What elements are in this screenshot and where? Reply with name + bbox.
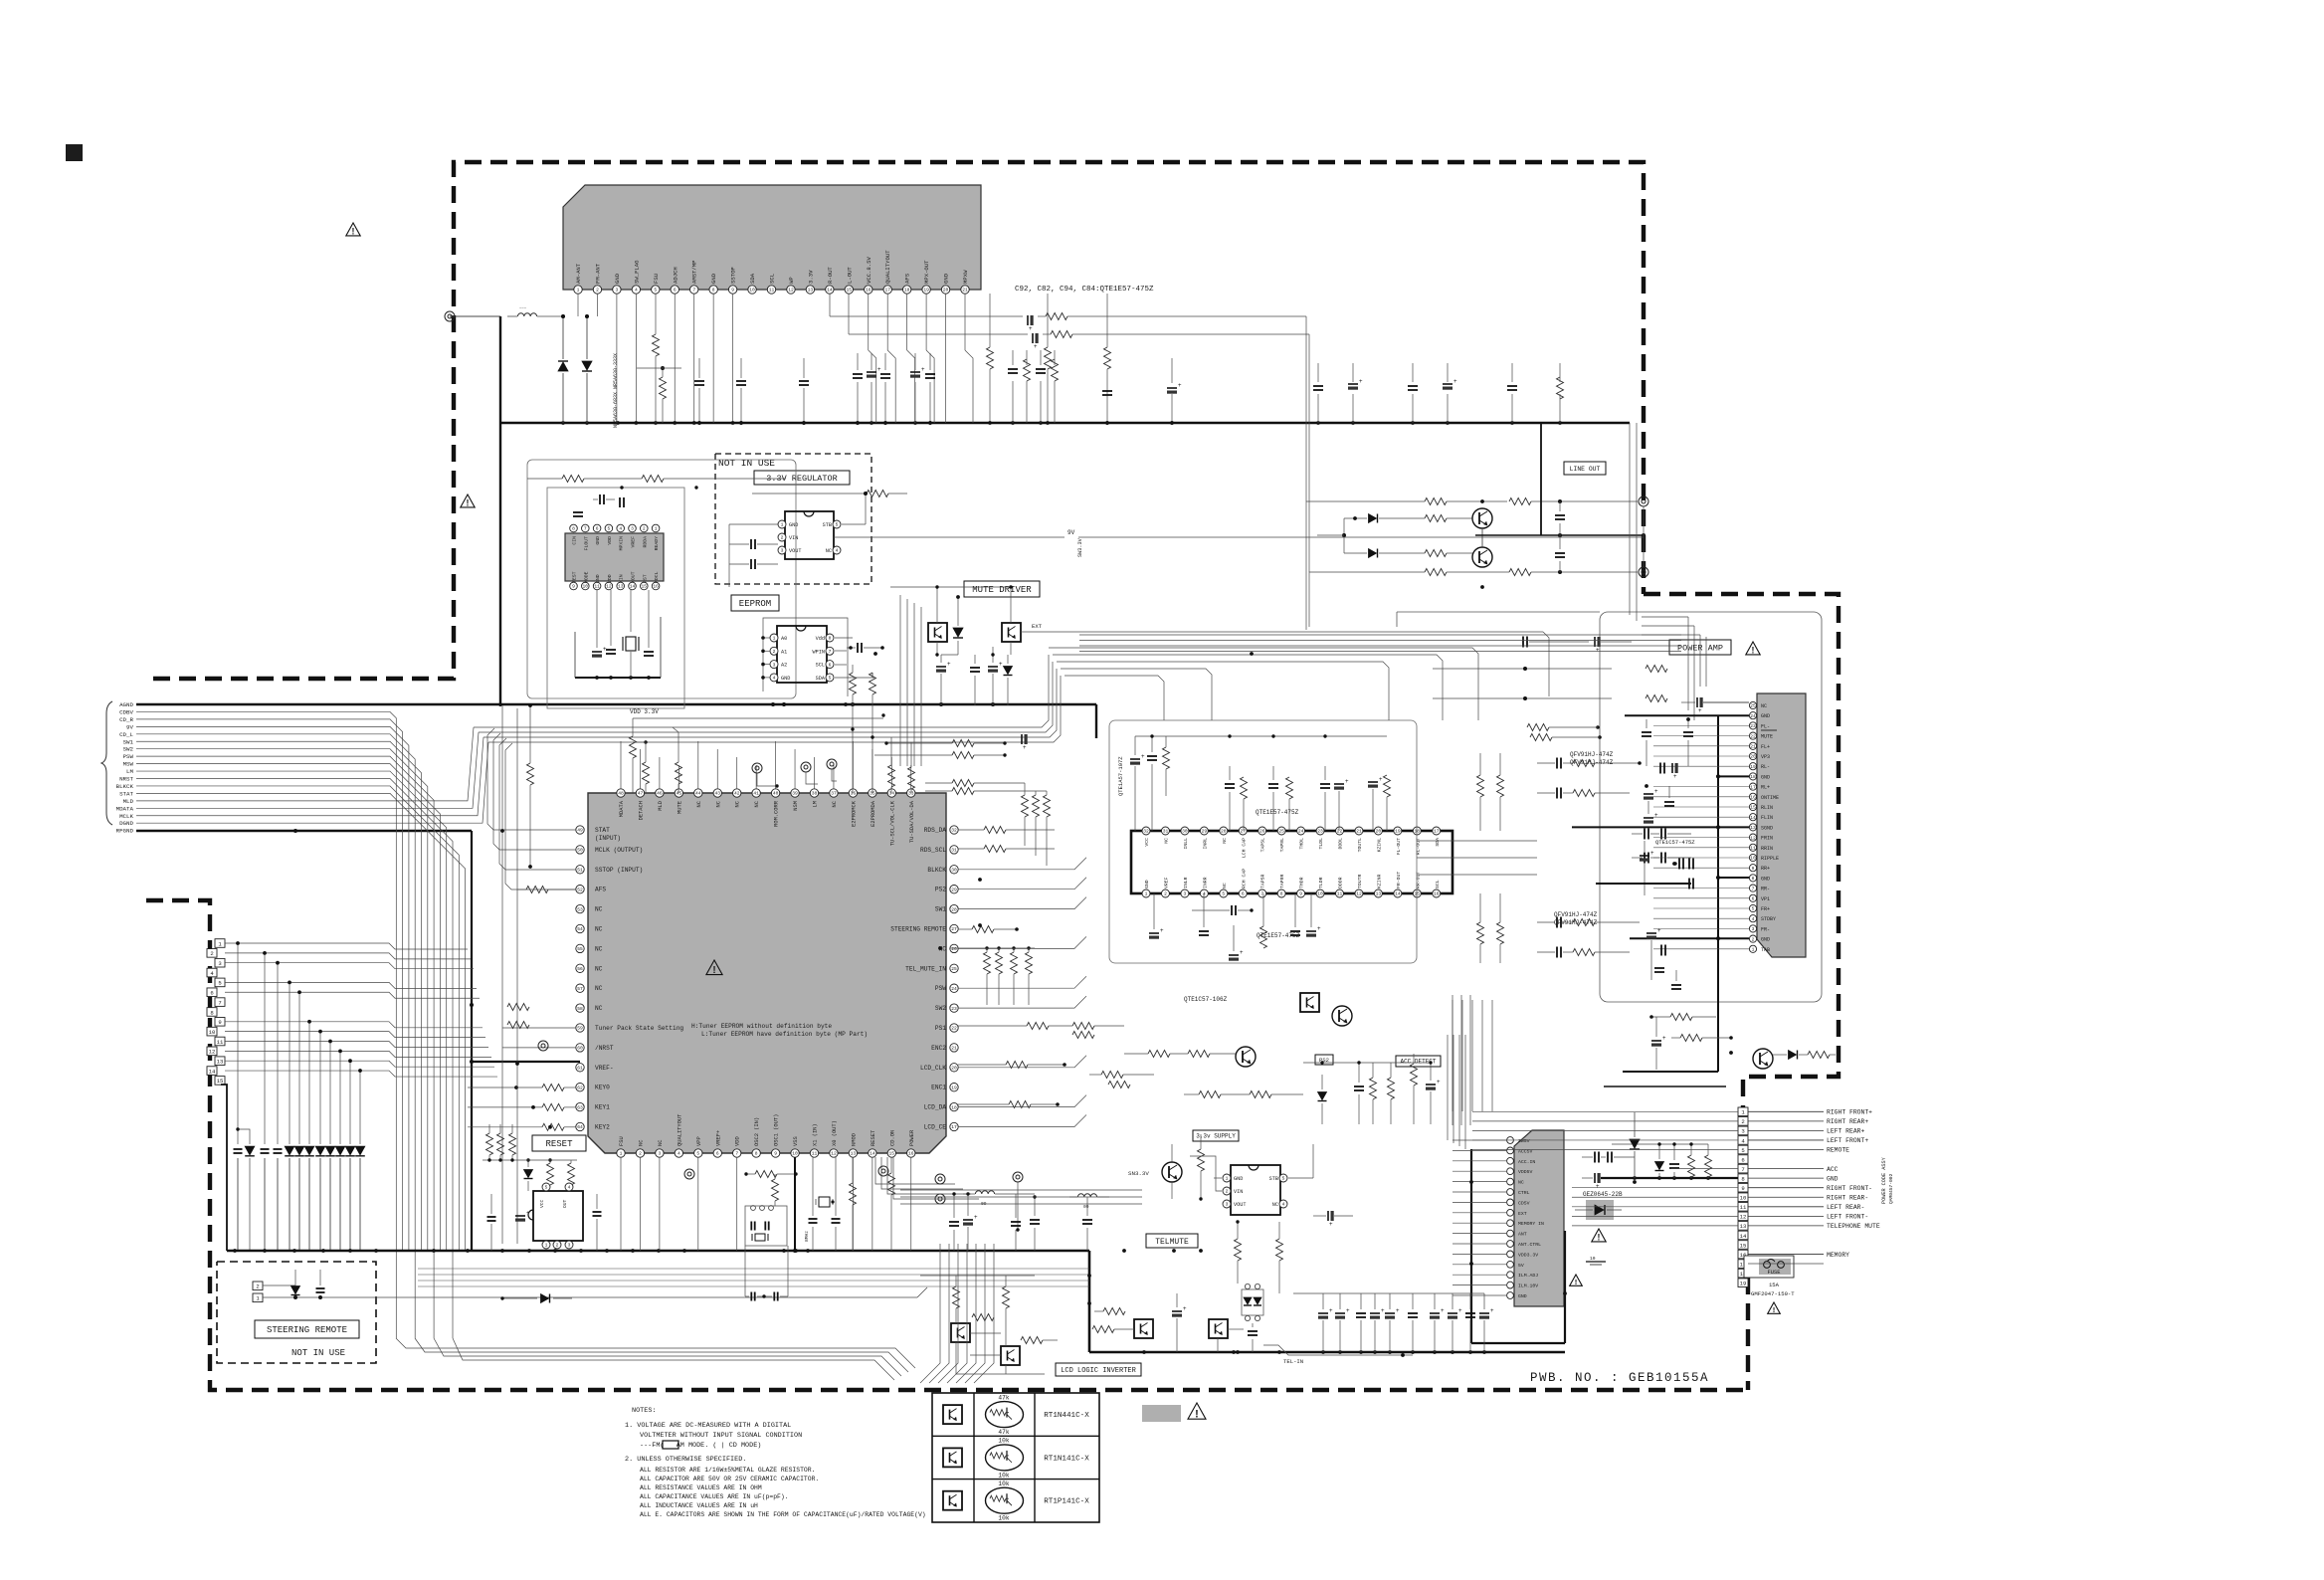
antenna coil [507, 307, 589, 318]
svg-text:VDD3.3V: VDD3.3V [1518, 1252, 1538, 1258]
svg-text:MDATA: MDATA [116, 805, 134, 812]
memory wire [1748, 1263, 1824, 1265]
steering remote label box [255, 1320, 359, 1338]
acc res right [1411, 1054, 1418, 1124]
dashed border bottom section [146, 900, 1748, 1390]
osc resistor [744, 1171, 797, 1178]
svg-text:THDR: THDR [1299, 877, 1305, 889]
svg-text:3: 3 [1741, 1128, 1744, 1135]
opto legend table [932, 1393, 1099, 1522]
svg-text:VREF+: VREF+ [715, 1130, 721, 1146]
svg-text:9: 9 [218, 1019, 221, 1026]
svg-text:~~~: ~~~ [519, 307, 527, 311]
svg-text:15: 15 [1415, 891, 1421, 897]
page corner marker [66, 144, 83, 161]
svg-text:QTE1E57-475Z: QTE1E57-475Z [1256, 809, 1299, 816]
svg-text:MLD: MLD [123, 798, 134, 805]
svg-text:+: + [1345, 779, 1349, 785]
svg-text:23: 23 [1750, 723, 1756, 729]
svg-text:17: 17 [884, 288, 890, 294]
svg-text:VDD5V: VDD5V [1518, 1169, 1533, 1175]
svg-text:RIGHT FRONT-: RIGHT FRONT- [1827, 1185, 1872, 1192]
svg-text:1. VOLTAGE ARE DC-MEASURED WIT: 1. VOLTAGE ARE DC-MEASURED WITH A DIGITA… [625, 1422, 791, 1430]
cpu testpoints [538, 759, 945, 1204]
svg-text:9: 9 [1299, 891, 1302, 897]
cpu bottom wires [621, 1157, 911, 1251]
cd bus risers [575, 590, 661, 678]
supply ic stubs [1452, 1140, 1506, 1295]
svg-text:13: 13 [1740, 1223, 1747, 1230]
svg-text:5: 5 [654, 288, 657, 294]
supply caps 2 [1669, 1144, 1712, 1178]
svg-text:+: + [1029, 326, 1033, 332]
svg-text:GND: GND [595, 536, 601, 545]
mb caps 2 [1030, 1195, 1092, 1251]
pa thick feeds [1596, 883, 1691, 885]
svg-text:PS1: PS1 [935, 1025, 946, 1032]
svg-text:24: 24 [1750, 713, 1756, 719]
svg-text:RCH CAP: RCH CAP [1241, 869, 1247, 889]
svg-text:/NRST: /NRST [595, 1045, 614, 1052]
lout filter [849, 294, 1309, 350]
svg-text:5V: 5V [1518, 1263, 1524, 1269]
cpu right wires [958, 858, 1086, 1127]
regulator caps [729, 524, 778, 587]
svg-text:16: 16 [866, 288, 871, 294]
front panel connector CN201 [207, 939, 225, 1085]
svg-text:10k: 10k [998, 1515, 1009, 1522]
osc resistor 2 [772, 1174, 779, 1206]
svg-text:ONTIME: ONTIME [1761, 795, 1779, 801]
gez diode pack [1575, 1191, 1623, 1220]
audio out wires right [1417, 841, 1537, 875]
reset rail [483, 1158, 577, 1161]
svg-text:KZINL: KZINL [1376, 838, 1382, 853]
svg-text:NC: NC [735, 801, 741, 807]
svg-text:SW5V: SW5V [1518, 1138, 1530, 1144]
svg-text:QTE1C57-106Z: QTE1C57-106Z [1184, 996, 1228, 1003]
power amp label box [1669, 640, 1731, 655]
svg-text:!: ! [712, 965, 715, 976]
svg-text:6: 6 [1752, 896, 1755, 902]
svg-text:LCD_DA: LCD_DA [924, 1104, 947, 1111]
audio coupling row 2 [1537, 788, 1630, 799]
svg-text:4: 4 [678, 1151, 680, 1157]
svg-text:26: 26 [1259, 829, 1265, 835]
svg-text:RT1N441C-X: RT1N441C-X [1044, 1412, 1089, 1420]
svg-text:7: 7 [218, 999, 221, 1006]
acc diode [1318, 1075, 1327, 1124]
svg-text:+: + [1317, 926, 1321, 932]
svg-text:SW1: SW1 [935, 906, 946, 913]
reset diode [524, 1158, 533, 1191]
pa ecap bottom [1651, 1017, 1666, 1070]
9v wire [834, 536, 1644, 538]
svg-text:17: 17 [1750, 784, 1756, 790]
svg-text:1: 1 [577, 288, 580, 294]
svg-text:NC: NC [1518, 1180, 1524, 1186]
svg-text:23: 23 [1317, 829, 1323, 835]
ps2 label box [1315, 1055, 1333, 1065]
svg-text:61: 61 [577, 1066, 583, 1072]
svg-text:2: 2 [773, 649, 776, 655]
svg-text:MSW: MSW [123, 761, 134, 768]
dashed border power amp section [1644, 594, 1839, 1390]
bottom rail upper [1293, 1292, 1484, 1294]
pa res 2 [1671, 1035, 1733, 1042]
svg-text:RR+: RR+ [1761, 866, 1770, 872]
svg-text:10: 10 [209, 1029, 216, 1036]
svg-text:AFS: AFS [904, 273, 911, 284]
svg-text:3: 3 [781, 548, 784, 554]
svg-text:12: 12 [788, 288, 794, 294]
svg-text:+: + [1437, 1080, 1441, 1086]
svg-text:CTRL: CTRL [1518, 1190, 1530, 1196]
tel dual diode [1242, 1284, 1263, 1320]
svg-text:AGND: AGND [119, 701, 133, 708]
svg-text:49: 49 [577, 828, 583, 834]
svg-text:FSU: FSU [653, 274, 660, 284]
svg-text:14: 14 [827, 288, 833, 294]
line out left rail [1306, 501, 1346, 630]
sda scl wp pullups [987, 294, 1111, 423]
svg-text:39: 39 [792, 791, 798, 797]
svg-text:RL-OUT: RL-OUT [1415, 838, 1421, 855]
svg-text:60: 60 [577, 1046, 583, 1052]
cd top resistors [527, 476, 786, 490]
svg-text:28: 28 [1221, 829, 1227, 835]
line out diode 1 [1344, 514, 1425, 523]
cpu tuner setting res [1089, 1072, 1154, 1088]
RFGND bus wire [136, 829, 474, 1250]
reset label box [532, 1135, 586, 1151]
svg-text:GND: GND [1234, 1176, 1243, 1182]
fan to lcd horizontals [396, 1338, 915, 1380]
svg-text:TELEPHONE MUTE: TELEPHONE MUTE [1827, 1223, 1880, 1230]
svg-text:MEMORY IN: MEMORY IN [1518, 1221, 1544, 1227]
svg-text:MDATA: MDATA [619, 800, 625, 817]
svg-text:4: 4 [1203, 891, 1206, 897]
svg-text:TEL_MUTE_IN: TEL_MUTE_IN [905, 965, 946, 972]
svg-text:32: 32 [951, 828, 957, 834]
svg-text:1: 1 [773, 636, 776, 642]
svg-text:MLD: MLD [658, 801, 664, 811]
svg-text:8: 8 [829, 636, 832, 642]
notes text block [625, 1407, 926, 1518]
svg-text:27: 27 [951, 926, 957, 932]
svg-text:NMOD: NMOD [851, 1133, 857, 1146]
supply ecap [1582, 1173, 1601, 1190]
svg-text:!: ! [1195, 1409, 1199, 1421]
svg-text:LM: LM [813, 801, 819, 807]
svg-text:!: ! [1773, 1305, 1776, 1314]
power connector assy label [1881, 1156, 1894, 1204]
svg-text:NC: NC [1761, 703, 1767, 709]
svg-text:!: ! [467, 498, 470, 508]
svg-text:SW2: SW2 [123, 746, 134, 753]
line out transistor 1 [1472, 508, 1492, 535]
svg-text:9V: 9V [126, 723, 133, 730]
svg-text:VIN: VIN [789, 535, 798, 541]
svg-text:A0: A0 [781, 636, 787, 642]
svg-text:22: 22 [1337, 829, 1343, 835]
tuner filter part number [613, 353, 619, 428]
svg-text:LCD LOGIC INVERTER: LCD LOGIC INVERTER [1061, 1367, 1136, 1375]
reset IC IC203 [528, 1183, 583, 1249]
svg-text:FSU: FSU [619, 1136, 625, 1146]
ground bus bottom [227, 1249, 1089, 1253]
svg-text:L-OUT: L-OUT [846, 267, 853, 284]
svg-text:10: 10 [1317, 891, 1323, 897]
3.3v supply label box [1193, 1130, 1239, 1141]
cpu tu resistors [888, 737, 915, 793]
power connector CN801 [1738, 1107, 1880, 1287]
pa lower caps [1646, 928, 1681, 989]
svg-text:15: 15 [642, 584, 648, 590]
svg-text:ALL E. CAPACITORS ARE SHOWN IN: ALL E. CAPACITORS ARE SHOWN IN THE FORM … [640, 1511, 926, 1518]
svg-text:4: 4 [619, 526, 622, 532]
gray legend swatch [1142, 1405, 1181, 1422]
svg-text:+: + [1240, 950, 1244, 956]
svg-text:TOUTR: TOUTR [1357, 874, 1363, 889]
pa bottom resistor [1649, 1014, 1716, 1021]
audio mid caps [1632, 829, 1691, 864]
svg-text:15: 15 [847, 288, 853, 294]
cpu e2prom resistors [850, 665, 876, 793]
AGND bus wire [136, 702, 1096, 738]
lcd logic inverter label box [1056, 1363, 1141, 1376]
svg-text:25: 25 [1750, 703, 1756, 709]
svg-text:VSS: VSS [793, 1136, 799, 1146]
svg-text:24: 24 [1298, 829, 1304, 835]
svg-text:VP3: VP3 [1761, 754, 1770, 760]
pwb number [1530, 1371, 1709, 1385]
svg-text:GND: GND [614, 273, 621, 284]
svg-text:VDD: VDD [607, 536, 613, 545]
cpu right res trio [1022, 783, 1051, 866]
tuner part number note [1015, 286, 1154, 294]
svg-text:10: 10 [1750, 856, 1756, 862]
cd area inner box [547, 488, 684, 708]
svg-text:9V: 9V [1067, 529, 1075, 536]
svg-text:20: 20 [951, 1066, 957, 1072]
telmute resistors [1235, 1220, 1283, 1293]
svg-text:29: 29 [951, 887, 957, 892]
cpu ps1 res [958, 1023, 1124, 1039]
svg-text:21: 21 [962, 288, 968, 294]
svg-text:TAP8R: TAP8R [1279, 874, 1285, 889]
svg-text:STEERING REMOTE: STEERING REMOTE [267, 1325, 347, 1335]
svg-text:19: 19 [1750, 764, 1756, 770]
svg-text:40: 40 [773, 791, 779, 797]
svg-text:12: 12 [606, 584, 612, 590]
svg-text:47k: 47k [998, 1394, 1009, 1401]
svg-text:FLIN: FLIN [1761, 815, 1773, 821]
svg-text:CD_L: CD_L [119, 731, 133, 738]
svg-text:2: 2 [1226, 1189, 1229, 1195]
svg-text:37: 37 [831, 791, 837, 797]
svg-text:+: + [1673, 774, 1677, 780]
svg-text:7: 7 [829, 649, 832, 655]
svg-text:QTE1C57-475Z: QTE1C57-475Z [1655, 839, 1695, 846]
svg-text:GND: GND [789, 522, 798, 528]
svg-text:2: 2 [256, 1284, 259, 1290]
CD decoder IC301 [461, 494, 664, 590]
line out cap 2 [1555, 535, 1565, 572]
tuner mid caps [853, 353, 935, 423]
svg-text:+: + [1329, 1308, 1333, 1314]
supply warn [1592, 1229, 1606, 1243]
svg-text:TELMUTE: TELMUTE [1155, 1238, 1189, 1247]
acc transistor 2 [1236, 1047, 1256, 1067]
svg-text:DDDR: DDDR [1338, 877, 1344, 889]
svg-text:WPIN: WPIN [813, 649, 825, 655]
audio vcc cap [1192, 905, 1254, 961]
mid bottom long bundle [418, 1269, 1089, 1286]
svg-text:13: 13 [618, 584, 624, 590]
svg-text:+: + [1490, 1308, 1494, 1314]
steering remote not in use [291, 1348, 345, 1358]
supply vert wires [1452, 1000, 1492, 1111]
svg-text:ADJCH: ADJCH [672, 267, 678, 284]
stat wire wrap [487, 728, 576, 889]
rout decouple caps [1008, 350, 1059, 423]
svg-text:ACC.IN: ACC.IN [1518, 1159, 1535, 1165]
svg-text:VCC: VCC [539, 1199, 545, 1208]
svg-text:12: 12 [831, 1151, 837, 1157]
svg-text:TU-SCL/VOL-CLK: TU-SCL/VOL-CLK [889, 800, 895, 846]
svg-text:21: 21 [951, 1046, 957, 1052]
svg-text:15: 15 [889, 1151, 895, 1157]
svg-text:+: + [1698, 708, 1702, 714]
svg-text:GND: GND [1761, 713, 1770, 719]
svg-text:3: 3 [1184, 891, 1187, 897]
svg-text:STEERING REMOTE: STEERING REMOTE [890, 926, 946, 933]
cpu pullup resistors [527, 703, 682, 869]
svg-text:13: 13 [1750, 825, 1756, 831]
pa caps 2 [1660, 763, 1678, 807]
svg-text:+: + [1654, 789, 1658, 795]
9v label [1067, 529, 1075, 536]
fsu resistor 2 [637, 366, 681, 423]
svg-text:XOUT: XOUT [631, 571, 637, 583]
lcd inv opto 1 [951, 1276, 970, 1342]
svg-text:NC: NC [595, 926, 603, 933]
svg-text:TLDR: TLDR [1318, 877, 1324, 889]
cd lower cluster [592, 632, 654, 658]
tel opto 2 [1209, 1319, 1244, 1352]
cpu fan lower right [875, 1157, 979, 1199]
svg-text:8: 8 [755, 1151, 758, 1157]
svg-text:KEY2: KEY2 [595, 1124, 610, 1131]
svg-text:NC: NC [1222, 883, 1228, 889]
microcontroller IC201 [576, 789, 958, 1157]
line out cap 1 [1555, 501, 1565, 535]
cpu right rds resistors [958, 827, 1055, 853]
svg-text:RIPPLE: RIPPLE [1761, 856, 1779, 862]
svg-text:PS2: PS2 [935, 887, 946, 893]
svg-text:+: + [1657, 928, 1661, 934]
svg-text:11: 11 [769, 288, 775, 294]
cpu enc res [958, 1062, 1066, 1108]
svg-text:FRIN: FRIN [1761, 836, 1773, 842]
cd area box [527, 460, 796, 698]
svg-text:OSC2 (IN): OSC2 (IN) [754, 1117, 760, 1146]
vdd33 label [630, 708, 659, 715]
svg-text:E2PROMCK: E2PROMCK [851, 800, 857, 827]
svg-text:GND: GND [1761, 937, 1770, 943]
svg-text:+: + [1596, 648, 1600, 654]
svg-text:SSTOP (INPUT): SSTOP (INPUT) [595, 867, 643, 874]
am diode [558, 316, 568, 423]
svg-text:5: 5 [1282, 1176, 1285, 1182]
svg-text:32: 32 [1143, 829, 1149, 835]
svg-text:DGND: DGND [119, 820, 133, 827]
svg-text:ALL RESISTOR ARE 1/16W±5%METAL: ALL RESISTOR ARE 1/16W±5%METAL GLAZE RES… [640, 1467, 815, 1474]
svg-text:19: 19 [951, 1085, 957, 1090]
svg-text:62: 62 [577, 1085, 583, 1090]
svg-text:QUALITYOUT: QUALITYOUT [884, 250, 891, 284]
svg-text:31: 31 [951, 848, 957, 854]
svg-text:4: 4 [568, 1185, 571, 1191]
svg-text:9: 9 [1741, 1185, 1744, 1192]
svg-text:9: 9 [774, 1151, 777, 1157]
svg-text:10: 10 [1740, 1195, 1747, 1202]
svg-text:+: + [1654, 813, 1658, 819]
svg-text:A2: A2 [781, 663, 787, 669]
svg-text:RESET: RESET [545, 1139, 573, 1149]
svg-text:24: 24 [951, 986, 957, 992]
sn33 transistor [1128, 1144, 1182, 1199]
svg-text:20: 20 [943, 288, 949, 294]
mute driver label box [964, 581, 1040, 597]
svg-text:GND: GND [1518, 1293, 1527, 1299]
svg-text:LEFT FRONT-: LEFT FRONT- [1827, 1214, 1868, 1221]
line out res 3 [1425, 550, 1472, 557]
svg-text:DDDL: DDDL [1338, 838, 1344, 850]
svg-text:LEFT REAR-: LEFT REAR- [1827, 1204, 1864, 1211]
svg-text:SN3.3V: SN3.3V [1128, 1170, 1149, 1177]
supply feed bundle [1452, 995, 1470, 1125]
svg-text:5: 5 [545, 1185, 548, 1191]
svg-text:VOLTMETER WITHOUT INPUT SIGNAL: VOLTMETER WITHOUT INPUT SIGNAL CONDITION [640, 1432, 802, 1440]
line out res to jack 2 [1509, 569, 1638, 576]
svg-text:C92, C82, C94, C84:QTE1E57-475: C92, C82, C94, C84:QTE1E57-475Z [1015, 286, 1154, 294]
svg-text:8: 8 [1752, 876, 1755, 882]
cpu right res pair 2 [925, 780, 1047, 795]
svg-text:5: 5 [1222, 891, 1225, 897]
svg-text:10k: 10k [998, 1472, 1009, 1479]
svg-text:+: + [1178, 383, 1182, 389]
svg-text:VREF-: VREF- [595, 1065, 614, 1072]
svg-text:5: 5 [696, 1151, 699, 1157]
svg-text:16: 16 [1434, 891, 1440, 897]
voltage regulator IC205 [778, 511, 841, 559]
svg-text:INLR: INLR [1183, 877, 1189, 889]
svg-text:SCL: SCL [1435, 880, 1441, 889]
svg-text:7: 7 [584, 526, 587, 532]
acc res row [1124, 1051, 1303, 1098]
svg-text:13: 13 [1376, 891, 1382, 897]
cpu left stub wires [468, 1028, 576, 1130]
svg-text:4: 4 [635, 288, 638, 294]
svg-text:22: 22 [951, 1026, 957, 1032]
svg-text:9: 9 [572, 584, 575, 590]
svg-text:LCH CAP: LCH CAP [1241, 838, 1247, 858]
supply gnd thick [1601, 1176, 1738, 1180]
cpu left res [507, 1004, 529, 1029]
svg-text:+: + [1346, 1308, 1350, 1314]
